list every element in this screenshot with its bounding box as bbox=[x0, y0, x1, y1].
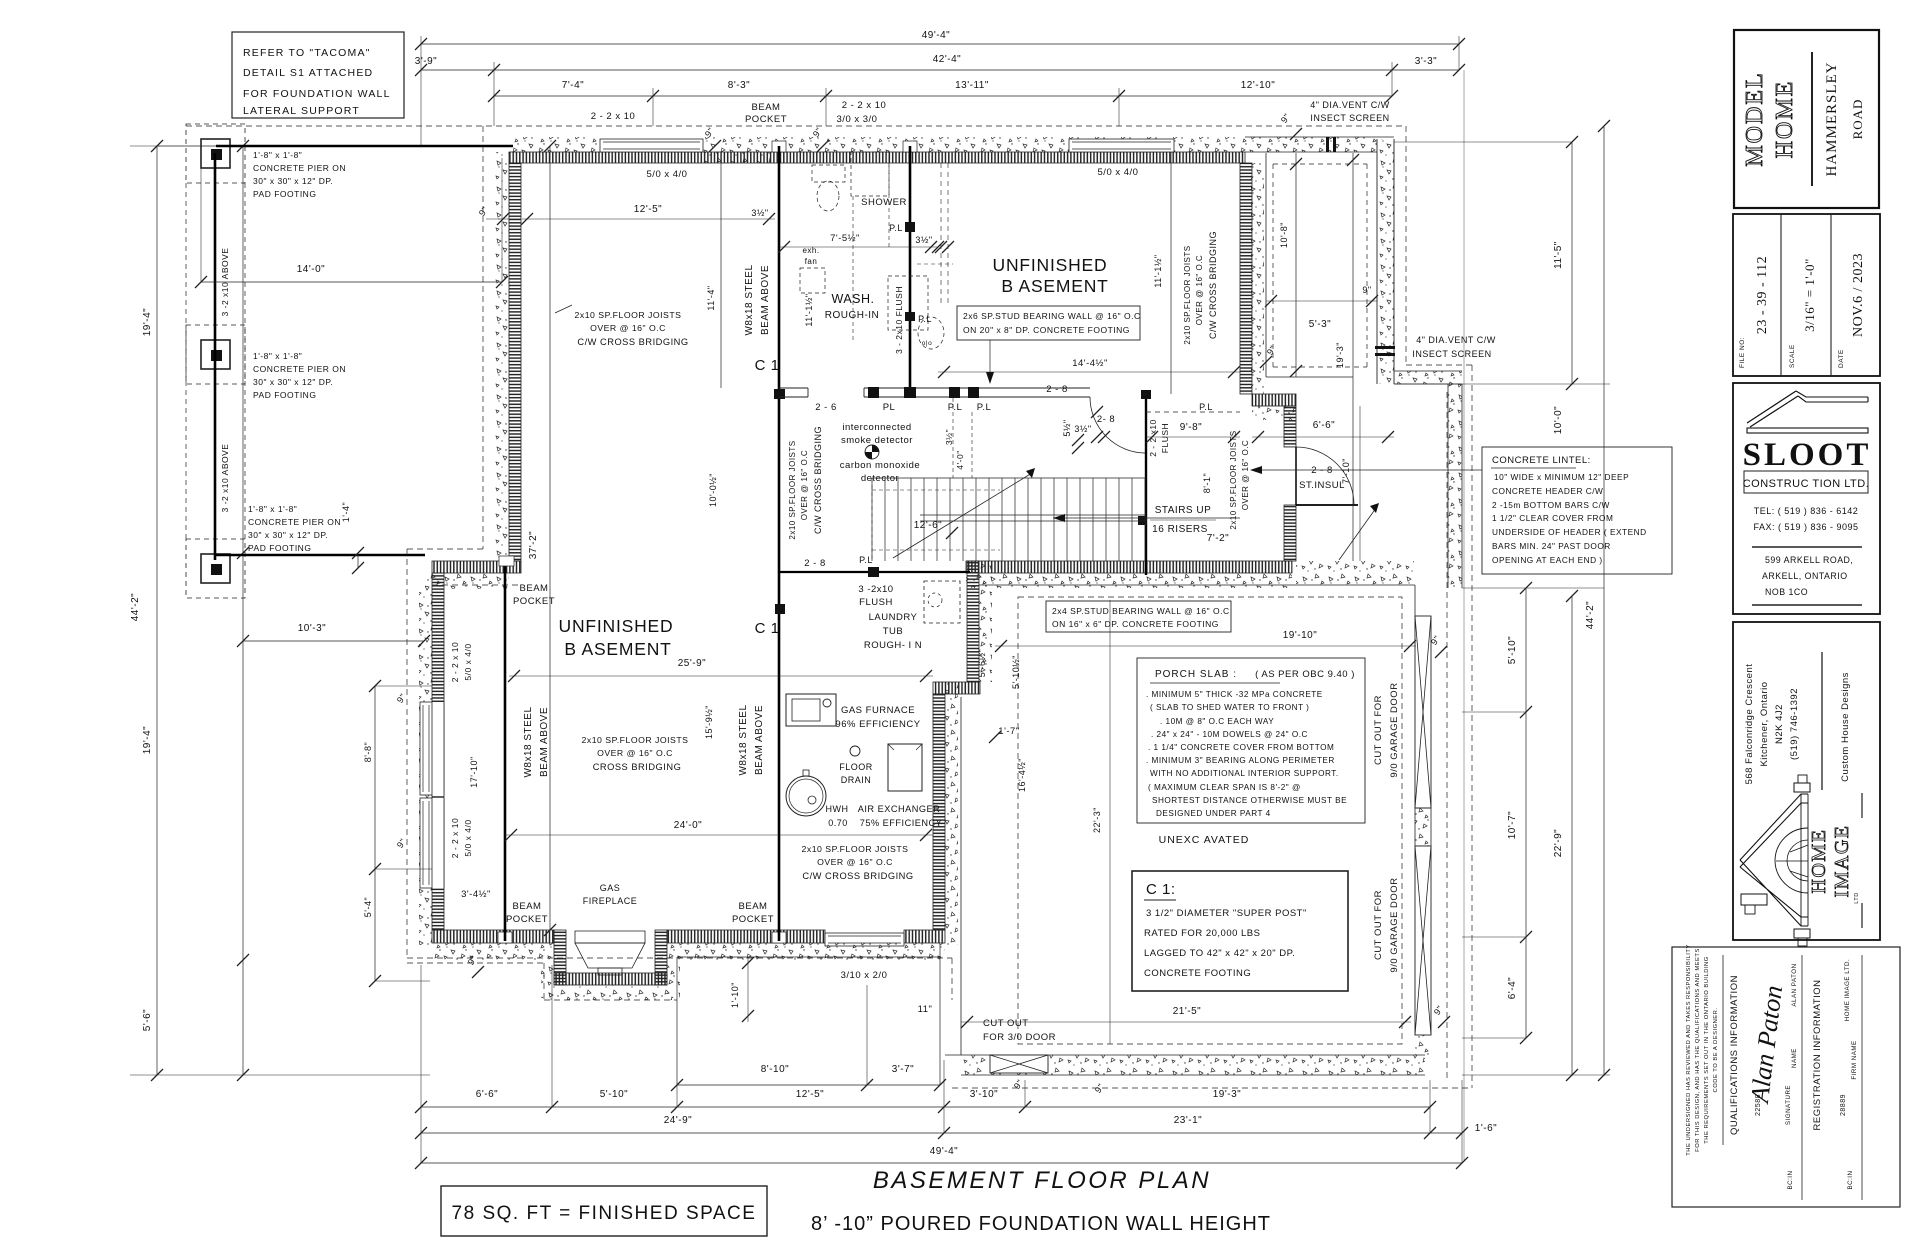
svg-text:1 1/2" CLEAR COVER FROM: 1 1/2" CLEAR COVER FROM bbox=[1492, 513, 1613, 523]
svg-text:POCKET: POCKET bbox=[732, 914, 774, 925]
note box porch slab bbox=[1137, 658, 1365, 823]
note box: refer to TACOMA detail bbox=[232, 32, 404, 118]
svg-text:UNFINISHED: UNFINISHED bbox=[559, 616, 674, 636]
svg-text:BC:IN: BC:IN bbox=[1787, 1170, 1794, 1189]
svg-text:6'-6": 6'-6" bbox=[1313, 420, 1335, 431]
svg-text:DETAIL S1 ATTACHED: DETAIL S1 ATTACHED bbox=[243, 67, 373, 79]
svg-text:ON 20" x 8" DP. CONCRETE FOOT: ON 20" x 8" DP. CONCRETE FOOTING bbox=[963, 325, 1130, 335]
dim 24'-0 bbox=[505, 834, 933, 836]
svg-text:22588: 22588 bbox=[1755, 1094, 1762, 1116]
svg-text:19'-3": 19'-3" bbox=[1213, 1089, 1241, 1100]
window 5/0x4/0 left in north wall bbox=[600, 139, 703, 152]
svg-text:LATERAL SUPPORT: LATERAL SUPPORT bbox=[243, 105, 360, 117]
svg-text:OVER @ 16" O.C: OVER @ 16" O.C bbox=[1241, 440, 1250, 510]
svg-text:W8x18 STEEL: W8x18 STEEL bbox=[523, 706, 534, 777]
svg-text:ON 16" x 6" DP. CONCRETE FOOTI: ON 16" x 6" DP. CONCRETE FOOTING bbox=[1052, 619, 1219, 629]
svg-text:2 - 2 x10: 2 - 2 x10 bbox=[1148, 419, 1158, 457]
svg-text:3 1/2" DIAMETER "SUPER POST": 3 1/2" DIAMETER "SUPER POST" bbox=[1146, 908, 1307, 919]
svg-text:INSECT SCREEN: INSECT SCREEN bbox=[1412, 349, 1491, 359]
svg-text:CUT OUT FOR: CUT OUT FOR bbox=[1373, 890, 1384, 960]
svg-text:3 -2 x10 ABOVE: 3 -2 x10 ABOVE bbox=[220, 444, 230, 513]
svg-text:37'-2": 37'-2" bbox=[528, 531, 539, 559]
svg-text:C/W CROSS BRIDGING: C/W CROSS BRIDGING bbox=[1208, 231, 1218, 339]
hot water heater HWH bbox=[786, 776, 826, 816]
title box SLOOT construction bbox=[1733, 383, 1880, 614]
porch slab outline bottom bbox=[677, 956, 940, 958]
svg-text:96% EFFICIENCY: 96% EFFICIENCY bbox=[835, 719, 920, 730]
room divider vertical right of window bbox=[1170, 152, 1172, 394]
svg-text:12'-5": 12'-5" bbox=[634, 204, 662, 215]
svg-text:3'-4½": 3'-4½" bbox=[461, 889, 491, 900]
extension lines left bbox=[157, 145, 509, 147]
svg-text:1'-6": 1'-6" bbox=[1475, 1123, 1497, 1134]
svg-text:BEAM ABOVE: BEAM ABOVE bbox=[539, 707, 550, 777]
P.L dashed plate line bbox=[1146, 411, 1240, 413]
svg-text:o|o: o|o bbox=[922, 340, 932, 347]
sink symbol bbox=[918, 317, 944, 349]
dimension 10'-3" bbox=[243, 640, 424, 642]
shower dashed bbox=[851, 152, 889, 196]
svg-text:22'-9": 22'-9" bbox=[1553, 829, 1564, 857]
svg-text:24'-0": 24'-0" bbox=[674, 820, 702, 831]
svg-text:DESIGNED UNDER PART 4: DESIGNED UNDER PART 4 bbox=[1156, 809, 1271, 818]
dim 11'-5 vertical right bbox=[1571, 142, 1573, 384]
svg-text:BEAM: BEAM bbox=[513, 901, 542, 912]
svg-text:BASEMENT FLOOR PLAN: BASEMENT FLOOR PLAN bbox=[873, 1167, 1211, 1194]
svg-text:2- 8: 2- 8 bbox=[1097, 414, 1115, 425]
svg-text:FOR FOUNDATION WALL: FOR FOUNDATION WALL bbox=[243, 88, 391, 100]
svg-text:44'-2": 44'-2" bbox=[130, 593, 141, 621]
east foundation wall lower bbox=[933, 694, 945, 930]
svg-text:C 1:: C 1: bbox=[1146, 881, 1176, 898]
arrow leader from concrete lintel note to door bbox=[1258, 469, 1482, 471]
svg-text:3½": 3½" bbox=[915, 235, 932, 245]
garage south wall stipple bbox=[961, 1055, 1425, 1075]
svg-text:P.L: P.L bbox=[918, 314, 932, 324]
dimension row 3'-9" / 42'-4" / 3'-3" bbox=[421, 69, 1459, 71]
svg-text:BEAM: BEAM bbox=[739, 901, 768, 912]
svg-text:10'-0": 10'-0" bbox=[1553, 406, 1564, 434]
svg-text:PORCH SLAB :: PORCH SLAB : bbox=[1155, 669, 1237, 680]
svg-text:C/W CROSS BRIDGING: C/W CROSS BRIDGING bbox=[813, 426, 823, 534]
svg-text:CONCRETE PIER ON: CONCRETE PIER ON bbox=[253, 364, 346, 374]
svg-text:2 - 2 x 10: 2 - 2 x 10 bbox=[591, 111, 636, 122]
svg-text:42'-4": 42'-4" bbox=[933, 54, 961, 65]
svg-text:2 - 2 x 10: 2 - 2 x 10 bbox=[450, 818, 460, 858]
svg-text:12'-5": 12'-5" bbox=[796, 1089, 824, 1100]
svg-text:15'-9½": 15'-9½" bbox=[704, 705, 714, 739]
svg-text:CUT OUT: CUT OUT bbox=[983, 1018, 1029, 1029]
svg-text:19'-4": 19'-4" bbox=[142, 726, 153, 754]
dashed guide lines pier column bbox=[185, 183, 187, 539]
svg-text:8'-8": 8'-8" bbox=[363, 742, 373, 762]
svg-text:23'-1": 23'-1" bbox=[1174, 1115, 1202, 1126]
home image house logo bbox=[1740, 794, 1808, 867]
air exchanger bbox=[888, 744, 922, 791]
svg-text:5/0 x 4/0: 5/0 x 4/0 bbox=[647, 169, 688, 180]
svg-text:10'-8": 10'-8" bbox=[1279, 222, 1289, 248]
svg-text:2 - 8: 2 - 8 bbox=[1311, 465, 1333, 476]
svg-text:HWH: HWH bbox=[826, 804, 849, 814]
svg-text:PAD FOOTING: PAD FOOTING bbox=[253, 390, 316, 400]
svg-text:ARKELL, ONTARIO: ARKELL, ONTARIO bbox=[1762, 571, 1848, 581]
dim 21'-5 bbox=[961, 1021, 1411, 1023]
svg-text:10" WIDE x MINIMUM 12" DEEP: 10" WIDE x MINIMUM 12" DEEP bbox=[1494, 472, 1629, 482]
svg-text:CONCRETE PIER ON: CONCRETE PIER ON bbox=[248, 517, 341, 527]
dimension left 19'-4" / 19'-4" / 5'-6" bbox=[242, 146, 244, 1075]
svg-text:. 24" x 24" - 10M DOWELS @ 24": . 24" x 24" - 10M DOWELS @ 24" O.C bbox=[1151, 730, 1308, 739]
stairs dashed headroom bbox=[872, 489, 1000, 491]
svg-text:( SLAB TO SHED WATER TO FRONT: ( SLAB TO SHED WATER TO FRONT ) bbox=[1150, 703, 1309, 712]
svg-text:CONCRETE FOOTING: CONCRETE FOOTING bbox=[1144, 968, 1251, 979]
svg-text:ALAN PATON: ALAN PATON bbox=[1791, 963, 1798, 1006]
laundry tub dashed bbox=[924, 581, 960, 623]
garage door cut lower 9/0 bbox=[1415, 846, 1431, 1035]
svg-text:10'-7": 10'-7" bbox=[1507, 811, 1518, 839]
sloot roof logo bbox=[1747, 391, 1798, 427]
dim 7'-5.5 washroom bbox=[779, 246, 938, 248]
stair hall south wall bbox=[966, 561, 1292, 573]
svg-text:25'-9": 25'-9" bbox=[678, 658, 706, 669]
svg-text:SCALE: SCALE bbox=[1789, 344, 1796, 368]
svg-text:LAUNDRY: LAUNDRY bbox=[869, 612, 918, 623]
svg-text:HOME: HOME bbox=[1772, 80, 1798, 159]
posts in bearing wall bbox=[868, 387, 879, 398]
svg-text:5'-4": 5'-4" bbox=[363, 897, 373, 917]
svg-text:NAME: NAME bbox=[1791, 1048, 1798, 1068]
svg-text:2 - 2 x 10: 2 - 2 x 10 bbox=[450, 642, 460, 682]
svg-text:44'-2": 44'-2" bbox=[1585, 601, 1596, 629]
note box C1 super post bbox=[1132, 871, 1348, 991]
svg-text:OVER @ 16" O.C: OVER @ 16" O.C bbox=[590, 323, 666, 333]
extension lines bottom bbox=[420, 965, 422, 1163]
svg-text:. 1 1/4" CONCRETE COVER FROM B: . 1 1/4" CONCRETE COVER FROM BOTTOM bbox=[1148, 743, 1334, 752]
svg-text:4'-0": 4'-0" bbox=[955, 450, 965, 469]
svg-text:POCKET: POCKET bbox=[745, 114, 787, 125]
svg-text:LAGGED TO 42" x 42" x 20": LAGGED TO 42" x 42" x 20" DP. bbox=[1144, 948, 1295, 959]
window in west lower wall lower 5/0x4/0 bbox=[432, 798, 444, 888]
footing dashed porch east bbox=[1405, 126, 1407, 365]
svg-text:1'-8" x 1'-8": 1'-8" x 1'-8" bbox=[253, 150, 302, 160]
bearing wall footing dashed lines bbox=[940, 163, 942, 306]
stairs arrow up bbox=[893, 473, 1032, 558]
svg-text:N2K 4J2: N2K 4J2 bbox=[1774, 704, 1785, 744]
svg-text:22'-3": 22'-3" bbox=[1092, 807, 1102, 833]
dim 5'-10 10'-7 6'-4 vertical bbox=[1525, 588, 1527, 1038]
svg-text:12'-10": 12'-10" bbox=[1241, 80, 1276, 91]
dim 25'-9 bbox=[509, 675, 933, 677]
svg-text:0.70: 0.70 bbox=[828, 818, 848, 828]
svg-text:49'-4": 49'-4" bbox=[930, 1146, 958, 1157]
footing dashed outline top bbox=[186, 125, 1406, 127]
svg-text:16 RISERS: 16 RISERS bbox=[1152, 524, 1208, 535]
svg-text:fan: fan bbox=[805, 257, 818, 266]
svg-text:5'-6½": 5'-6½" bbox=[977, 649, 987, 677]
svg-text:PL: PL bbox=[883, 402, 896, 413]
svg-text:POCKET: POCKET bbox=[513, 596, 555, 607]
dimension 44'-2" left overall bbox=[156, 146, 158, 1075]
stairs rail lines bbox=[920, 514, 1146, 516]
svg-text:. MINIMUM 5" THICK -32 MPa CON: . MINIMUM 5" THICK -32 MPa CONCRETE bbox=[1146, 690, 1323, 699]
svg-text:4" DIA.VENT C/W: 4" DIA.VENT C/W bbox=[1416, 335, 1496, 345]
thick bearing line laundry bbox=[779, 571, 970, 573]
svg-text:2 - 8: 2 - 8 bbox=[804, 558, 826, 569]
title box model home hammersley road bbox=[1734, 30, 1879, 208]
svg-text:OPENING AT EACH END ): OPENING AT EACH END ) bbox=[1492, 555, 1603, 565]
svg-text:16'-4½": 16'-4½" bbox=[1017, 758, 1027, 792]
svg-text:7'-2": 7'-2" bbox=[1207, 533, 1229, 544]
room divider line washroom west bbox=[720, 163, 722, 388]
svg-text:ST.INSUL: ST.INSUL bbox=[1299, 480, 1345, 491]
vent pipe symbol top bbox=[1326, 137, 1329, 152]
finished space box bbox=[441, 1186, 767, 1236]
svg-text:9/0 GARAGE DOOR: 9/0 GARAGE DOOR bbox=[1389, 682, 1400, 777]
footing dashed outline west upper bbox=[482, 126, 484, 549]
svg-text:1'-8" x 1'-8": 1'-8" x 1'-8" bbox=[253, 351, 302, 361]
svg-text:B ASEMENT: B ASEMENT bbox=[1001, 276, 1108, 296]
entry jog wall bbox=[1252, 394, 1296, 406]
dashed inner garage east bbox=[1446, 392, 1448, 1080]
west step wall bbox=[432, 561, 521, 573]
svg-text:6'-4": 6'-4" bbox=[1507, 977, 1518, 999]
svg-text:2x10 SP.FLOOR JOISTS: 2x10 SP.FLOOR JOISTS bbox=[1183, 245, 1192, 344]
svg-text:5'-10": 5'-10" bbox=[600, 1089, 628, 1100]
svg-text:1'-8" x 1'-8": 1'-8" x 1'-8" bbox=[248, 504, 297, 514]
svg-text:CONSTRUC TION LTD.: CONSTRUC TION LTD. bbox=[1743, 478, 1870, 490]
dim 5'-3 bbox=[1266, 300, 1377, 302]
svg-text:P.L: P.L bbox=[948, 402, 963, 413]
svg-text:C/W CROSS BRIDGING: C/W CROSS BRIDGING bbox=[577, 337, 688, 347]
svg-text:3/0 x 3/0: 3/0 x 3/0 bbox=[837, 114, 878, 125]
svg-text:568 Falconridge Crescent: 568 Falconridge Crescent bbox=[1744, 664, 1755, 785]
svg-text:5'-6": 5'-6" bbox=[142, 1009, 153, 1031]
concrete pier P1 with pad footing bbox=[201, 139, 230, 168]
svg-text:PAD FOOTING: PAD FOOTING bbox=[253, 189, 316, 199]
arrow from 2x6 note to wall bbox=[989, 340, 991, 380]
svg-text:BC:IN: BC:IN bbox=[1847, 1170, 1854, 1189]
door arc in bearing wall to stair hall bbox=[1090, 397, 1146, 453]
svg-text:3½": 3½" bbox=[1074, 424, 1091, 434]
svg-text:75% EFFICIENCY: 75% EFFICIENCY bbox=[860, 818, 943, 828]
beam line top from pier P1 to wall bbox=[216, 145, 513, 148]
svg-text:ROAD: ROAD bbox=[1850, 99, 1865, 140]
title box home image designs bbox=[1733, 622, 1880, 940]
svg-text:SIGNATURE: SIGNATURE bbox=[1785, 1085, 1792, 1125]
svg-text:HOME IMAGE LTD.: HOME IMAGE LTD. bbox=[1844, 959, 1851, 1021]
svg-text:HOME: HOME bbox=[1808, 829, 1830, 894]
beam pocket notches in north wall bbox=[772, 141, 786, 152]
svg-text:SHOWER: SHOWER bbox=[861, 197, 907, 208]
svg-text:9/0 GARAGE DOOR: 9/0 GARAGE DOOR bbox=[1389, 877, 1400, 972]
svg-text:BEAM: BEAM bbox=[520, 583, 549, 594]
porch south wall bbox=[1394, 371, 1462, 384]
svg-text:. 10M @ 8" O.C EACH WAY: . 10M @ 8" O.C EACH WAY bbox=[1160, 717, 1274, 726]
west foundation wall lower bbox=[419, 589, 432, 945]
svg-text:(519) 746-1392: (519) 746-1392 bbox=[1789, 688, 1800, 760]
stairs treads bbox=[871, 478, 873, 561]
footing dashed bottom bbox=[407, 957, 952, 959]
svg-text:UNEXC AVATED: UNEXC AVATED bbox=[1159, 834, 1250, 846]
entry door jamb upper bbox=[1284, 406, 1296, 447]
svg-text:4" DIA.VENT C/W: 4" DIA.VENT C/W bbox=[1310, 100, 1390, 110]
porch east wall with vent bbox=[1376, 139, 1378, 384]
svg-text:11'-1½": 11'-1½" bbox=[804, 293, 814, 326]
garage inner boundary bbox=[979, 584, 1415, 586]
svg-text:C/W CROSS BRIDGING: C/W CROSS BRIDGING bbox=[802, 871, 913, 881]
svg-text:2 - 8: 2 - 8 bbox=[1046, 384, 1068, 395]
svg-text:UNFINISHED: UNFINISHED bbox=[993, 255, 1108, 275]
svg-text:BARS MIN. 24" PAST DOOR: BARS MIN. 24" PAST DOOR bbox=[1492, 541, 1611, 551]
steel beam through washroom bbox=[909, 146, 912, 398]
svg-text:STAIRS UP: STAIRS UP bbox=[1155, 505, 1212, 516]
svg-text:7'-10": 7'-10" bbox=[1341, 458, 1351, 484]
svg-text:8'-3": 8'-3" bbox=[728, 80, 750, 91]
beam line vertical pier column bbox=[214, 153, 217, 560]
toilet rough-in dashed bbox=[817, 181, 839, 211]
svg-text:78 SQ. FT = FINISHED SPACE: 78 SQ. FT = FINISHED SPACE bbox=[452, 1203, 757, 1224]
steel beam W8x18 right full height bbox=[778, 146, 781, 941]
svg-text:DRAIN: DRAIN bbox=[841, 775, 872, 785]
svg-text:3'-10": 3'-10" bbox=[970, 1089, 998, 1100]
dimension 49'-4 bottom bbox=[421, 1162, 1462, 1164]
svg-text:2 - 6: 2 - 6 bbox=[815, 402, 837, 413]
east wall jog bbox=[933, 682, 980, 694]
svg-text:Kitchener, Ontario: Kitchener, Ontario bbox=[1759, 681, 1770, 766]
svg-text:12'-6": 12'-6" bbox=[914, 520, 942, 531]
svg-text:11'-1½": 11'-1½" bbox=[1153, 254, 1163, 287]
svg-text:OVER @ 16" O.C: OVER @ 16" O.C bbox=[597, 748, 673, 758]
svg-text:2x10 SP.FLOOR JOISTS: 2x10 SP.FLOOR JOISTS bbox=[802, 844, 909, 854]
svg-text:11": 11" bbox=[918, 1004, 933, 1015]
svg-text:smoke detector: smoke detector bbox=[841, 435, 913, 446]
svg-text:ROUGH-IN: ROUGH-IN bbox=[825, 310, 880, 321]
svg-text:DATE: DATE bbox=[1838, 349, 1845, 368]
concrete pier P3 with pad footing bbox=[201, 554, 230, 583]
svg-text:FLUSH: FLUSH bbox=[859, 597, 893, 608]
svg-text:HAMMERSLEY: HAMMERSLEY bbox=[1824, 61, 1840, 176]
svg-text:Custom House Designs: Custom House Designs bbox=[1840, 672, 1851, 782]
svg-text:2 -15m BOTTOM BARS C/W: 2 -15m BOTTOM BARS C/W bbox=[1492, 500, 1610, 510]
svg-text:2x10 SP.FLOOR JOISTS: 2x10 SP.FLOOR JOISTS bbox=[788, 440, 797, 539]
svg-text:17'-10": 17'-10" bbox=[469, 756, 479, 787]
east foundation wall of main upper part bbox=[1251, 163, 1264, 394]
svg-text:W8x18 STEEL: W8x18 STEEL bbox=[738, 704, 749, 775]
svg-text:RATED FOR 20,000 LBS: RATED FOR 20,000 LBS bbox=[1144, 928, 1260, 939]
svg-text:FIREPLACE: FIREPLACE bbox=[583, 896, 638, 906]
dim 14'-4.5 bbox=[938, 371, 1240, 373]
svg-text:ROUGH- I N: ROUGH- I N bbox=[864, 640, 922, 651]
svg-text:3 - 2x10 FLUSH: 3 - 2x10 FLUSH bbox=[894, 286, 904, 354]
svg-text:21'-5": 21'-5" bbox=[1173, 1006, 1201, 1017]
svg-text:FILE NO:: FILE NO: bbox=[1739, 337, 1746, 368]
svg-text:5'-10½": 5'-10½" bbox=[1011, 655, 1021, 689]
dimension 37'-2" vertical bbox=[549, 146, 551, 930]
svg-text:2x4 SP.STUD BEARING WALL @ 16": 2x4 SP.STUD BEARING WALL @ 16" O.C bbox=[1052, 606, 1230, 616]
dim 8'-10 and 3'-7 bbox=[677, 1084, 940, 1086]
svg-text:NOB 1CO: NOB 1CO bbox=[1765, 587, 1808, 597]
svg-text:28889: 28889 bbox=[1840, 1094, 1847, 1116]
qualification information box bbox=[1672, 947, 1900, 1207]
svg-text:5/0 x 4/0: 5/0 x 4/0 bbox=[463, 643, 473, 680]
svg-text:FOR 3/0 DOOR: FOR 3/0 DOOR bbox=[983, 1032, 1056, 1043]
dim 10'-0 vertical right bbox=[1571, 595, 1573, 597]
svg-text:30" x 30" x 12" DP.: 30" x 30" x 12" DP. bbox=[253, 377, 333, 387]
beam pocket notch in step wall bbox=[499, 556, 514, 566]
bearing wall note 2x6 bbox=[957, 306, 1140, 340]
svg-text:OVER @ 16" O.C: OVER @ 16" O.C bbox=[1195, 255, 1204, 325]
entry door swing 2-8 st.insul bbox=[1296, 447, 1354, 505]
svg-text:BEAM ABOVE: BEAM ABOVE bbox=[760, 265, 771, 335]
dimension row 24'-9 23'-1 1'-6 bbox=[421, 1132, 1462, 1134]
svg-text:5'-3": 5'-3" bbox=[1309, 319, 1331, 330]
note box concrete lintel bbox=[1482, 447, 1672, 574]
dim 6'-6 bbox=[1252, 436, 1394, 438]
svg-text:23 - 39 - 112: 23 - 39 - 112 bbox=[1755, 256, 1770, 334]
gas furnace icon bbox=[786, 694, 836, 726]
svg-text:SLOOT: SLOOT bbox=[1743, 437, 1872, 473]
svg-text:14'-4½": 14'-4½" bbox=[1072, 358, 1108, 369]
smoke detector symbol bbox=[865, 445, 879, 459]
svg-text:UNDERSIDE OF HEADER ( EXTEND: UNDERSIDE OF HEADER ( EXTEND bbox=[1492, 527, 1647, 537]
svg-text:. MINIMUM 3" BEARING ALONG PER: . MINIMUM 3" BEARING ALONG PERIMETER bbox=[1146, 756, 1335, 765]
garage door cut upper 9/0 bbox=[1415, 616, 1431, 808]
svg-text:CROSS BRIDGING: CROSS BRIDGING bbox=[593, 762, 682, 772]
svg-text:3/10 x 2/0: 3/10 x 2/0 bbox=[841, 970, 888, 981]
footing dashed south of step wall bbox=[432, 584, 521, 586]
svg-text:TUB: TUB bbox=[883, 626, 904, 637]
svg-text:P.L: P.L bbox=[1199, 402, 1213, 412]
svg-text:7'-5½": 7'-5½" bbox=[830, 233, 860, 244]
svg-text:10'-3": 10'-3" bbox=[298, 623, 326, 634]
svg-text:CUT OUT FOR: CUT OUT FOR bbox=[1373, 695, 1384, 765]
beam pockets in south wall bbox=[498, 932, 512, 943]
garage east wall upper bbox=[1448, 384, 1462, 588]
stairs center arrow line bbox=[1053, 517, 1240, 519]
window in west lower wall upper 5/0x4/0 bbox=[432, 702, 444, 795]
porch cold cellar inner walls bbox=[1265, 153, 1267, 377]
svg-text:14'-0": 14'-0" bbox=[297, 264, 325, 275]
footing dashed west lower bbox=[406, 549, 408, 958]
south foundation wall bbox=[432, 930, 554, 943]
vent pipe symbol at porch east wall bbox=[1375, 346, 1395, 349]
stair hall thick wall line bbox=[1145, 395, 1147, 575]
svg-text:6'-6": 6'-6" bbox=[476, 1089, 498, 1100]
left lower dims bbox=[374, 686, 376, 981]
window 3/10x2/0 in south wall bbox=[825, 933, 904, 946]
svg-text:FIRM NAME: FIRM NAME bbox=[1851, 1040, 1858, 1079]
PL node lower on beam bbox=[905, 312, 915, 321]
svg-text:3 -2x10: 3 -2x10 bbox=[858, 584, 893, 595]
svg-text:19'-4": 19'-4" bbox=[142, 308, 153, 336]
svg-text:8'-10": 8'-10" bbox=[761, 1064, 789, 1075]
svg-text:2x10 SP.FLOOR JOISTS: 2x10 SP.FLOOR JOISTS bbox=[575, 310, 682, 320]
svg-text:interconnected: interconnected bbox=[842, 422, 911, 433]
svg-text:1'-7": 1'-7" bbox=[998, 726, 1019, 737]
svg-text:LTD: LTD bbox=[1854, 892, 1860, 903]
svg-text:PAD FOOTING: PAD FOOTING bbox=[248, 543, 311, 553]
svg-text:24'-9": 24'-9" bbox=[664, 1115, 692, 1126]
svg-text:2x10 SP.FLOOR JOISTS: 2x10 SP.FLOOR JOISTS bbox=[582, 735, 689, 745]
footing dashed garage south and east bbox=[951, 958, 953, 1000]
dimension row bottom 6'-6 5'-10 12'-5 3'-10 19'-3 bbox=[421, 1106, 1430, 1108]
dashed plumbing walls washroom bbox=[852, 196, 854, 340]
svg-text:30" x 30" x 12" DP.: 30" x 30" x 12" DP. bbox=[253, 176, 333, 186]
svg-text:7'-4": 7'-4" bbox=[562, 80, 584, 91]
svg-text:WITH NO ADDITIONAL INTERIOR SU: WITH NO ADDITIONAL INTERIOR SUPPORT. bbox=[1150, 769, 1339, 778]
svg-text:QUALIFICATIONS INFORMATION: QUALIFICATIONS INFORMATION bbox=[1729, 975, 1740, 1135]
svg-text:5'-10": 5'-10" bbox=[1507, 636, 1518, 664]
svg-text:W8x18 STEEL: W8x18 STEEL bbox=[744, 264, 755, 335]
